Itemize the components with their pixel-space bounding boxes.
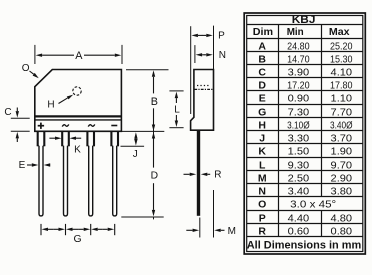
table outer border [244, 13, 365, 254]
side view dash-dot line [194, 88, 213, 90]
svg-text:N: N [219, 50, 226, 61]
svg-text:A: A [258, 40, 266, 52]
svg-text:H: H [47, 100, 54, 111]
dimension E arrows [27, 164, 32, 166]
svg-text:0.80: 0.80 [331, 226, 353, 237]
dimension C extension lines [11, 117, 30, 119]
dimension P arrows [198, 34, 202, 36]
svg-text:14.70: 14.70 [287, 54, 310, 65]
svg-text:B: B [151, 96, 158, 108]
svg-text:O: O [258, 198, 266, 210]
hole H dashed circle [73, 87, 81, 95]
table column line 1 [278, 25, 280, 237]
package body side view with standoff notch [191, 70, 214, 131]
svg-text:M: M [228, 226, 236, 237]
side view lead [197, 130, 200, 216]
dimension J arrows [135, 138, 137, 141]
table column line 2 lower [321, 211, 323, 237]
lead 4 front view [110, 131, 112, 146]
svg-text:Max: Max [329, 27, 350, 38]
svg-text:0.60: 0.60 [288, 226, 310, 237]
dimension J extension line [121, 145, 145, 147]
svg-text:7.30: 7.30 [288, 107, 310, 118]
svg-text:O: O [22, 63, 30, 74]
svg-text:KBJ: KBJ [292, 14, 316, 26]
dimension C arrows [16, 108, 18, 112]
dimension G tick marks [40, 224, 42, 235]
side view upper dotted line [197, 85, 210, 87]
svg-text:1.50: 1.50 [288, 146, 310, 157]
lead 3 front view [86, 131, 88, 146]
table column line 2 upper [321, 25, 323, 197]
svg-text:Min: Min [287, 27, 304, 38]
svg-text:Dim: Dim [253, 27, 273, 38]
svg-text:24.80: 24.80 [287, 41, 310, 52]
svg-text:2.90: 2.90 [331, 173, 353, 184]
svg-text:4.40: 4.40 [288, 213, 310, 224]
svg-text:B: B [258, 53, 266, 65]
svg-text:0.90: 0.90 [288, 93, 310, 104]
dimension M arrows [186, 229, 192, 231]
svg-text:3.70: 3.70 [331, 133, 353, 144]
svg-text:All Dimensions in mm: All Dimensions in mm [247, 239, 362, 251]
svg-text:L: L [259, 159, 266, 171]
dimension N arrows [202, 54, 204, 56]
svg-text:9.30: 9.30 [288, 160, 310, 171]
svg-text:7.70: 7.70 [331, 107, 353, 118]
terminal strip upper thick line [35, 115, 122, 117]
table row lines [247, 24, 363, 26]
AC terminal symbol 2 [88, 124, 95, 126]
svg-text:P: P [218, 31, 225, 42]
svg-text:R: R [258, 225, 266, 237]
svg-text:D: D [258, 79, 266, 91]
svg-text:1.10: 1.10 [331, 93, 353, 104]
svg-text:K: K [74, 144, 81, 155]
svg-text:A: A [75, 50, 83, 62]
svg-text:3.0 x 45°: 3.0 x 45° [290, 198, 336, 210]
svg-text:4.10: 4.10 [331, 67, 353, 78]
dimension P extension lines [190, 26, 192, 114]
AC terminal symbol 1 [62, 124, 69, 126]
svg-text:1.90: 1.90 [331, 146, 353, 157]
svg-text:3.10Ø: 3.10Ø [287, 120, 310, 131]
dimension N extension line [194, 45, 196, 63]
svg-text:J: J [133, 149, 138, 160]
dimension A arrows [42, 54, 74, 56]
svg-text:15.30: 15.30 [330, 54, 353, 65]
dimension D extension line bottom [121, 216, 163, 218]
svg-text:9.70: 9.70 [331, 160, 353, 171]
plus terminal symbol [38, 125, 44, 127]
svg-text:3.40Ø: 3.40Ø [330, 120, 353, 131]
package body front view with chamfer [35, 70, 122, 132]
dimension B arrows [153, 77, 155, 94]
svg-text:3.80: 3.80 [331, 186, 353, 197]
dimension K arrows [49, 137, 55, 139]
dimension R arrows [184, 173, 190, 175]
svg-text:3.40: 3.40 [288, 186, 310, 197]
dimension D arrows [153, 129, 155, 132]
lead 2 front view [61, 131, 63, 146]
svg-text:L: L [174, 104, 180, 115]
body bottom extension line [121, 130, 165, 132]
svg-text:M: M [258, 172, 267, 184]
svg-text:N: N [258, 185, 266, 197]
svg-text:25.20: 25.20 [330, 41, 353, 52]
svg-text:17.20: 17.20 [287, 80, 310, 91]
dimension L extension lines [169, 90, 183, 92]
svg-text:4.80: 4.80 [331, 213, 353, 224]
dimension A extension lines [34, 45, 36, 64]
svg-text:17.80: 17.80 [330, 80, 353, 91]
svg-text:G: G [74, 234, 82, 245]
svg-text:3.90: 3.90 [288, 67, 310, 78]
dimension M extension lines [199, 218, 201, 238]
svg-text:R: R [214, 170, 221, 181]
table inner border [247, 16, 363, 252]
svg-text:G: G [258, 106, 266, 118]
minus terminal symbol [111, 125, 117, 127]
dimension G arrows [48, 228, 53, 230]
svg-text:P: P [259, 212, 266, 224]
svg-text:J: J [259, 132, 265, 144]
svg-text:K: K [258, 145, 266, 157]
dimension L arrows [175, 98, 177, 103]
terminal strip lower line [35, 119, 122, 121]
svg-text:H: H [258, 119, 266, 131]
svg-text:C: C [4, 107, 11, 118]
svg-text:D: D [151, 171, 158, 182]
svg-text:E: E [19, 160, 26, 171]
svg-text:C: C [258, 66, 266, 78]
svg-text:E: E [259, 92, 266, 104]
svg-text:2.50: 2.50 [288, 173, 310, 184]
dimension B extension line top [126, 69, 169, 71]
lead 1 front view [37, 131, 39, 146]
svg-text:3.30: 3.30 [288, 133, 310, 144]
